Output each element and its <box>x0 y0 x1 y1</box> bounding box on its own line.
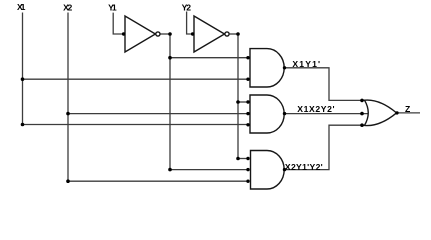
pin U1 input <box>122 32 125 35</box>
svg-text:X1: X1 <box>17 2 26 12</box>
wire Y2' to AND3 input 1 <box>238 158 249 160</box>
wire AND2 output to OR input 2 <box>284 113 367 115</box>
junction X1/AND1 <box>21 77 25 81</box>
pin U3 input 1 <box>246 56 249 59</box>
junction Y2'/AND3 <box>236 157 240 161</box>
svg-text:Y2: Y2 <box>182 2 192 12</box>
OR gate U6 (Z) <box>365 100 397 125</box>
junction X1/AND2 <box>21 123 25 127</box>
svg-text:X1Y1': X1Y1' <box>292 59 320 69</box>
pin U6 input 2 <box>360 112 364 116</box>
wire Y2' to AND2 input 1 <box>238 101 249 103</box>
inverter U2 (Y2') <box>194 16 225 52</box>
junction Y2' top <box>236 32 240 36</box>
pin U4 input 2 <box>246 112 249 115</box>
wire OR output Z <box>397 112 420 114</box>
wire X1 to AND1 input 2 <box>23 78 250 80</box>
svg-text:Z: Z <box>405 104 410 114</box>
pin U6 input 1 <box>360 99 364 103</box>
svg-text:X2: X2 <box>63 2 72 12</box>
wire Y1' vertical <box>169 34 171 170</box>
pin U3 output <box>283 66 286 69</box>
pin U4 output <box>283 112 286 115</box>
wire Y2 vertical <box>187 12 195 35</box>
pin U4 input 1 <box>246 100 249 103</box>
wire X2 vertical <box>67 13 69 182</box>
wire Y1' to AND3 input 2 <box>170 169 249 171</box>
inverter U1 (Y1') <box>125 16 155 52</box>
wire AND3 output to OR input 3 <box>284 125 364 169</box>
pin U3 input 2 <box>246 78 249 81</box>
pin U5 input 3 <box>246 180 249 183</box>
pin U5 input 1 <box>246 157 249 160</box>
junction X2/AND2 <box>66 112 70 116</box>
wire Y1 vertical <box>113 13 125 34</box>
junction Y2'/AND2 <box>236 100 240 104</box>
junction Y1' top <box>168 32 172 36</box>
wire AND1 output to OR input 1 <box>284 68 364 101</box>
wire Y2' inverter output <box>230 33 238 35</box>
wire X2 to AND2 input 2 <box>68 113 249 115</box>
pin U6 output <box>395 111 398 114</box>
AND gate U4 (X1X2Y2') <box>250 95 284 133</box>
pin U2 input <box>191 32 194 35</box>
wire X1 vertical <box>22 13 24 125</box>
wire Y1' to AND1 input 1 <box>170 57 249 59</box>
wire Y1' inverter output <box>160 33 170 35</box>
pin U4 input 3 <box>246 123 249 126</box>
wire Y2' vertical <box>237 34 239 159</box>
pin U5 output <box>283 168 286 171</box>
svg-text:X2Y1'Y2': X2Y1'Y2' <box>285 162 323 172</box>
junction Y1'/AND1 <box>168 56 172 60</box>
wire X1 to AND2 input 3 <box>23 124 250 126</box>
wire X2 to AND3 input 3 <box>68 180 249 182</box>
pin U5 input 2 <box>246 168 249 171</box>
junction Y1'/AND3 <box>168 168 172 172</box>
junction X2/AND3 <box>66 179 70 183</box>
svg-text:Y1: Y1 <box>108 2 117 12</box>
pin U6 input 3 <box>360 123 364 127</box>
AND gate U5 (X2Y1'Y2') <box>251 151 285 190</box>
svg-text:X1X2Y2': X1X2Y2' <box>297 104 334 114</box>
AND gate U3 (X1Y1') <box>250 49 284 87</box>
